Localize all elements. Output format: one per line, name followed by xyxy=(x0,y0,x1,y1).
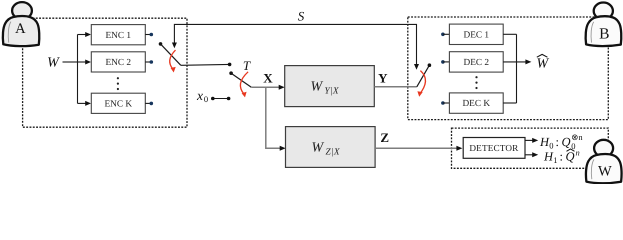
arrow S right drop xyxy=(414,64,419,70)
dashed box Alice (encoder side) xyxy=(23,18,187,127)
node DEC K input dot xyxy=(441,101,445,105)
svg-text:W: W xyxy=(47,55,60,70)
svg-text:0: 0 xyxy=(204,94,208,104)
wire W branch vertical xyxy=(77,35,79,104)
wire Z channel line xyxy=(375,147,457,149)
switch T free end dot xyxy=(229,71,233,75)
dashed box Bob (decoder side) xyxy=(408,17,609,120)
block channel WY|X xyxy=(285,66,375,107)
svg-text:x: x xyxy=(196,88,203,103)
svg-text:DEC 2: DEC 2 xyxy=(464,58,490,68)
svg-text:W: W xyxy=(311,80,324,95)
node H0 hypothesis label xyxy=(539,132,583,151)
wire DEC 1 output xyxy=(503,33,516,35)
wire DEC 2 output to What arrow xyxy=(503,61,526,63)
svg-text:⊗n: ⊗n xyxy=(571,132,583,142)
block ENC K xyxy=(91,93,145,113)
switch 1 arm xyxy=(161,44,181,65)
wire S top line xyxy=(174,24,416,65)
wire into ENC 1 xyxy=(78,34,86,36)
block DEC 1 xyxy=(449,24,503,44)
wire W input line xyxy=(63,61,78,63)
svg-text:W: W xyxy=(598,164,612,180)
block DETECTOR xyxy=(463,138,525,159)
dashed box Warden (detector side) xyxy=(452,128,609,168)
wire ENC 2 output xyxy=(145,61,150,63)
node DEC 2 input dot xyxy=(441,60,445,64)
svg-text:1: 1 xyxy=(553,155,557,165)
wire DEC 2 input stub xyxy=(443,61,450,63)
svg-text:DEC 1: DEC 1 xyxy=(464,30,490,40)
svg-text:W: W xyxy=(536,57,549,72)
svg-text:A: A xyxy=(15,21,26,37)
svg-text:S: S xyxy=(298,8,305,23)
wire X branch down to WZX xyxy=(266,87,281,148)
svg-text:Q: Q xyxy=(562,135,571,149)
node ENC K output dot xyxy=(150,102,154,106)
svg-text:ENC 2: ENC 2 xyxy=(106,58,132,68)
wire into ENC 2 xyxy=(78,61,86,63)
block ENC 1 xyxy=(91,25,145,45)
svg-text:T: T xyxy=(243,58,251,73)
svg-text:Y|X: Y|X xyxy=(325,87,339,97)
person B (Bob) xyxy=(586,3,622,47)
wire DEC K input stub xyxy=(443,102,450,104)
node ENC 1 output dot xyxy=(150,33,154,37)
wire ENC K output xyxy=(145,102,150,104)
wire detector output H1 xyxy=(525,154,533,156)
node ENC 2 output dot xyxy=(150,60,154,64)
svg-text::: : xyxy=(560,149,563,163)
node x0 dot left xyxy=(211,97,215,101)
svg-text:DEC K: DEC K xyxy=(462,99,490,109)
svg-text:Y: Y xyxy=(378,70,388,85)
switch T red rotation arrow xyxy=(240,72,248,98)
block DEC 2 xyxy=(449,52,503,72)
wire Y channel line xyxy=(374,86,417,88)
wire DEC 1 input stub xyxy=(443,33,450,35)
svg-text::: : xyxy=(556,135,559,149)
wire DEC K output xyxy=(503,102,516,104)
switch Y red rotation arrow xyxy=(417,71,425,97)
switch 1 red rotation arrow xyxy=(170,50,176,72)
svg-text:B: B xyxy=(599,25,609,42)
wire into ENC K xyxy=(78,102,86,104)
wire switch1 to T terminal xyxy=(181,63,230,66)
node DEC vertical dots xyxy=(475,76,477,78)
wire X channel line xyxy=(251,86,279,88)
arrow S left drop xyxy=(172,43,177,49)
switch 1 free end dot xyxy=(159,42,163,46)
svg-text:W: W xyxy=(312,140,325,155)
node ENC vertical dots xyxy=(117,77,119,79)
node H1 hypothesis label xyxy=(543,147,580,165)
switch Y arm xyxy=(417,65,430,87)
svg-text:DETECTOR: DETECTOR xyxy=(469,143,519,153)
wire detector output H0 xyxy=(525,139,533,141)
svg-text:ENC K: ENC K xyxy=(104,100,132,110)
svg-text:n: n xyxy=(576,147,580,157)
node x0 dot right xyxy=(227,97,231,101)
node T input terminal dot xyxy=(228,63,232,67)
block ENC 2 xyxy=(91,52,145,72)
block channel WZ|X xyxy=(286,127,376,168)
wire DEC output bus xyxy=(516,34,518,103)
node W-hat label xyxy=(536,54,549,71)
node DEC 1 input dot xyxy=(441,33,445,37)
wire x0 stub xyxy=(213,98,229,100)
svg-text:ENC 1: ENC 1 xyxy=(106,31,132,41)
wire ENC 1 output xyxy=(145,34,150,36)
svg-text:X: X xyxy=(263,70,273,85)
person A (Alice) xyxy=(3,2,39,46)
switch T arm xyxy=(231,73,251,87)
svg-text:Z|X: Z|X xyxy=(326,147,340,157)
switch Y free end dot xyxy=(428,63,432,67)
person W (Warden) xyxy=(586,140,622,183)
svg-text:Z: Z xyxy=(380,130,389,145)
block DEC K xyxy=(449,93,503,113)
